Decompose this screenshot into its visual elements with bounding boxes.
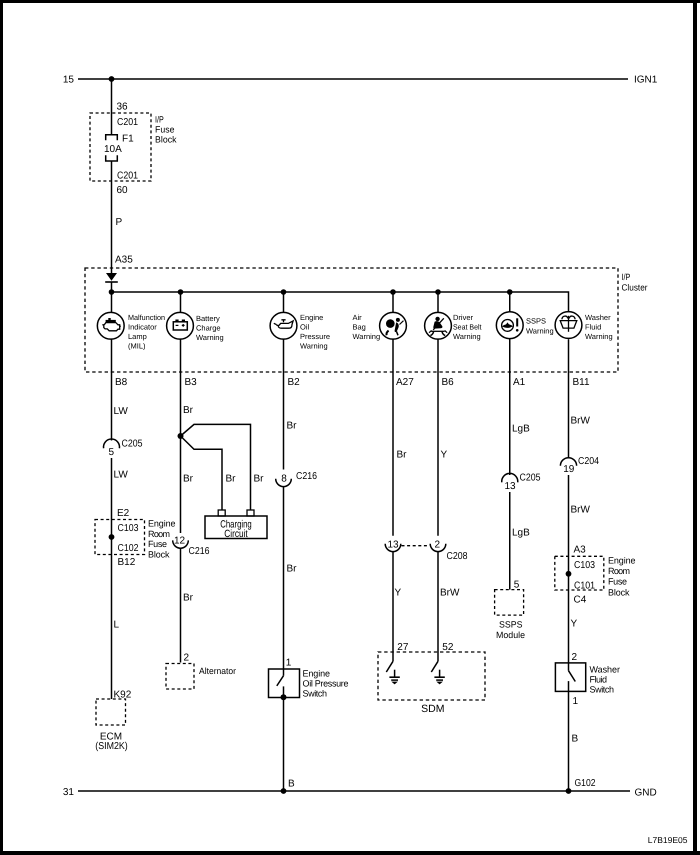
svg-text:Br: Br (183, 405, 194, 416)
svg-text:Oil Pressure: Oil Pressure (303, 678, 349, 688)
svg-text:SSPS: SSPS (499, 619, 523, 629)
svg-text:Washer: Washer (590, 664, 621, 674)
lamp washer fluid warning (555, 312, 582, 339)
svg-text:Engine: Engine (303, 668, 331, 678)
svg-text:LW: LW (114, 406, 129, 417)
svg-text:B11: B11 (573, 377, 590, 388)
ECM module box (96, 699, 126, 725)
lamp washer name (585, 313, 613, 341)
wire Br lower (283, 487, 285, 669)
engine oil pressure switch name (303, 668, 349, 698)
svg-text:Warning: Warning (300, 342, 328, 351)
svg-text:36: 36 (117, 102, 129, 113)
engine room fuse block name (col7) (608, 555, 636, 597)
svg-text:L: L (114, 620, 120, 631)
svg-text:Warning: Warning (196, 333, 224, 342)
svg-text:L7B19E05: L7B19E05 (648, 835, 688, 845)
svg-text:GND: GND (635, 788, 657, 799)
ground (SDM 52) (434, 670, 444, 684)
svg-text:Air: Air (353, 313, 363, 322)
lamp engine oil pressure warning (270, 312, 297, 339)
wire BrW upper (568, 339, 570, 458)
svg-text:Fluid: Fluid (590, 674, 608, 684)
svg-text:Malfunction: Malfunction (128, 313, 165, 322)
connector C208 link (402, 545, 430, 547)
svg-text:8: 8 (281, 474, 287, 485)
svg-text:2: 2 (572, 652, 578, 663)
svg-text:Circuit: Circuit (224, 528, 248, 540)
svg-text:Warning: Warning (353, 332, 381, 341)
svg-text:C201: C201 (117, 171, 138, 182)
svg-text:LW: LW (114, 470, 129, 481)
svg-text:LgB: LgB (512, 528, 530, 539)
SDM box (378, 652, 485, 700)
lamp MIL name (128, 313, 165, 351)
svg-text:60: 60 (117, 185, 129, 196)
svg-text:(SIM2K): (SIM2K) (95, 741, 128, 752)
wire Y (437, 339, 439, 536)
wire branch to charging circuit right pin (181, 424, 251, 510)
svg-text:B8: B8 (115, 377, 128, 388)
wire Br upper (283, 339, 285, 469)
lamp air bag name (353, 313, 381, 341)
fuse F1 (106, 135, 118, 141)
SSPS module box (495, 590, 524, 616)
svg-text:Block: Block (155, 135, 177, 145)
svg-text:Br: Br (183, 593, 194, 604)
lamp engine oil pressure drop wire (283, 292, 285, 312)
svg-text:B3: B3 (185, 377, 198, 388)
svg-text:10A: 10A (104, 144, 122, 155)
svg-text:P: P (116, 217, 123, 228)
lamp battery charge warning (167, 312, 194, 339)
junction on GND rail (281, 788, 287, 794)
svg-text:Br: Br (287, 421, 298, 432)
svg-text:13: 13 (504, 481, 516, 492)
svg-text:Charge: Charge (196, 324, 221, 333)
svg-text:5: 5 (514, 579, 520, 590)
connector C204 pin 19 (560, 458, 576, 466)
svg-text:Fluid: Fluid (585, 323, 601, 332)
svg-text:B: B (288, 778, 295, 789)
svg-text:Fuse: Fuse (155, 125, 175, 135)
svg-text:BrW: BrW (571, 505, 591, 516)
switch blade (washer) (568, 663, 570, 671)
svg-text:Y: Y (571, 619, 578, 630)
lamp MIL drop wire (111, 292, 113, 312)
svg-text:Lamp: Lamp (128, 332, 147, 341)
svg-text:B12: B12 (118, 557, 136, 568)
svg-text:Engine: Engine (608, 555, 636, 565)
lamp battery name (196, 314, 224, 342)
svg-text:Switch: Switch (303, 688, 328, 698)
lamp battery charge drop wire (180, 292, 182, 312)
svg-text:BrW: BrW (571, 416, 591, 427)
svg-text:1: 1 (573, 696, 579, 707)
junction on IGN1 rail (109, 76, 115, 82)
svg-text:C216: C216 (296, 471, 317, 482)
switch blade (oil pressure) (283, 669, 285, 676)
lamp air bag warning (380, 312, 407, 339)
svg-text:Engine: Engine (148, 519, 176, 529)
svg-text:C103: C103 (118, 523, 139, 534)
I/P cluster box (85, 268, 618, 372)
svg-text:C208: C208 (447, 551, 468, 562)
svg-text:A1: A1 (513, 377, 526, 388)
lamp SSPS drop wire (509, 292, 511, 312)
svg-text:Bag: Bag (353, 323, 366, 332)
wire B to ground rail (283, 698, 285, 792)
svg-text:Seat Belt: Seat Belt (453, 323, 482, 332)
svg-text:Y: Y (441, 450, 448, 461)
wire Y lower (392, 552, 394, 662)
engine room fuse block (col7) (555, 556, 604, 590)
border frame (0, 0, 700, 3)
svg-text:Y: Y (395, 588, 402, 599)
svg-text:Driver: Driver (453, 313, 474, 322)
svg-text:Fuse: Fuse (608, 577, 627, 587)
svg-text:C101: C101 (574, 581, 595, 592)
svg-text:52: 52 (442, 642, 454, 653)
svg-text:A3: A3 (574, 544, 587, 555)
wire cluster bus (112, 292, 569, 312)
svg-text:Module: Module (496, 630, 525, 640)
svg-text:Washer: Washer (585, 313, 611, 322)
svg-text:B2: B2 (288, 377, 301, 388)
charging circuit box (205, 516, 267, 539)
svg-text:I/P: I/P (622, 272, 631, 282)
svg-text:Battery: Battery (196, 314, 220, 323)
svg-text:SSPS: SSPS (526, 317, 546, 326)
wire Br (392, 339, 394, 536)
svg-text:1: 1 (286, 658, 292, 669)
svg-text:(MIL): (MIL) (128, 342, 146, 351)
svg-text:C4: C4 (574, 595, 587, 606)
svg-text:BrW: BrW (440, 588, 460, 599)
svg-text:F1: F1 (122, 134, 134, 145)
diode (106, 273, 117, 281)
engine room fuse block (col1) (95, 520, 145, 555)
svg-text:19: 19 (563, 464, 575, 475)
svg-text:C204: C204 (578, 456, 599, 467)
svg-text:Br: Br (226, 474, 237, 485)
svg-text:Pressure: Pressure (300, 332, 330, 341)
svg-text:LgB: LgB (512, 424, 530, 435)
svg-text:B: B (572, 734, 579, 745)
svg-text:Br: Br (254, 474, 265, 485)
lamp air bag drop wire (392, 292, 394, 312)
svg-text:Block: Block (608, 587, 630, 597)
connector C205 pin 5 (104, 439, 120, 448)
lamp oil name (300, 313, 330, 351)
lamp seat belt name (453, 313, 482, 341)
svg-text:2: 2 (184, 652, 190, 663)
svg-text:I/P: I/P (155, 115, 164, 125)
svg-text:A27: A27 (396, 377, 414, 388)
connector C205 pin 13 (502, 473, 518, 482)
switch blade in SDM (52) (431, 661, 438, 672)
svg-text:C201: C201 (117, 117, 138, 128)
svg-text:2: 2 (435, 540, 441, 551)
svg-text:12: 12 (174, 536, 186, 547)
svg-text:Warning: Warning (585, 332, 613, 341)
engine room fuse block name (148, 519, 176, 560)
lamp MIL (Malfunction Indicator Lamp) (97, 312, 124, 339)
svg-text:Br: Br (287, 564, 298, 575)
svg-text:A35: A35 (115, 255, 133, 266)
svg-text:Room: Room (148, 529, 170, 539)
svg-text:C103: C103 (574, 560, 595, 571)
lamp driver seat belt warning (425, 312, 452, 339)
wire IGN1 rail (78, 78, 628, 80)
wire GND rail (78, 790, 630, 792)
svg-text:Indicator: Indicator (128, 323, 157, 332)
svg-text:Fuse: Fuse (148, 539, 167, 549)
svg-text:Engine: Engine (300, 313, 323, 322)
svg-text:Cluster: Cluster (622, 283, 648, 293)
wire Br lower (180, 548, 182, 662)
svg-text:Block: Block (148, 549, 170, 559)
svg-text:C216: C216 (189, 546, 210, 557)
junction node G102 (566, 788, 572, 794)
svg-text:Br: Br (397, 450, 408, 461)
junction in fuse block (109, 534, 115, 540)
I/P fuse block box (90, 113, 151, 181)
wire LgB lower (509, 492, 511, 590)
svg-text:31: 31 (63, 787, 75, 798)
svg-text:C205: C205 (520, 473, 541, 484)
wire BrW lower (568, 475, 570, 663)
svg-text:C205: C205 (122, 439, 143, 450)
svg-text:C102: C102 (118, 543, 139, 554)
svg-text:G102: G102 (575, 778, 596, 789)
alternator box (166, 664, 194, 690)
svg-text:IGN1: IGN1 (634, 75, 658, 86)
wire Br upper (180, 339, 182, 533)
svg-text:K92: K92 (114, 690, 132, 701)
svg-text:Room: Room (608, 566, 630, 576)
washer fluid switch box (555, 663, 585, 692)
svg-text:E2: E2 (117, 508, 130, 519)
wire BrW lower (437, 552, 439, 662)
junction nodes on bus (109, 289, 115, 295)
svg-text:5: 5 (109, 447, 115, 458)
ground (SDM 27) (389, 670, 399, 684)
junction at switch bottom (281, 694, 287, 700)
svg-text:15: 15 (63, 75, 75, 86)
wire LW lower (111, 458, 113, 699)
charging circuit pins (218, 510, 225, 516)
svg-text:Oil: Oil (300, 323, 310, 332)
wire B to ground rail (568, 691, 570, 791)
junction in fuse block (566, 571, 572, 577)
svg-text:B6: B6 (442, 377, 455, 388)
lamp SSPS warning (496, 312, 523, 339)
switch blade in SDM (27) (386, 661, 393, 672)
engine oil pressure switch box (269, 669, 300, 698)
svg-text:Switch: Switch (590, 684, 615, 694)
wire LW upper (111, 339, 113, 440)
wire P from fuse to cluster (111, 161, 113, 273)
wire LgB upper (509, 338, 511, 475)
junction node branch (178, 433, 184, 439)
lamp SSPS name (526, 317, 554, 336)
washer fluid switch name (590, 664, 621, 694)
lamp seat belt drop wire (437, 292, 439, 312)
svg-text:Warning: Warning (526, 327, 554, 336)
svg-text:13: 13 (387, 540, 399, 551)
svg-text:Warning: Warning (453, 332, 481, 341)
wire branch to charging circuit left pin (181, 436, 223, 510)
wire from rail to fuse (111, 79, 113, 135)
svg-text:Br: Br (183, 474, 194, 485)
svg-text:SDM: SDM (421, 703, 444, 715)
svg-text:Alternator: Alternator (199, 666, 236, 676)
